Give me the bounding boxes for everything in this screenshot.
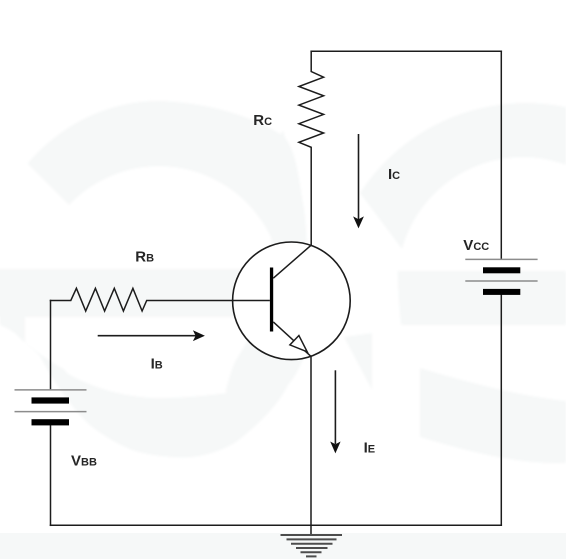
transistor Q1 [233, 242, 351, 360]
arrow IE [330, 370, 340, 453]
arrow IC [353, 134, 364, 228]
background watermark right glyph [344, 103, 566, 463]
svg-text:RC: RC [253, 112, 272, 129]
emitter line [273, 322, 311, 357]
battery VBB [15, 390, 87, 426]
wire top [311, 50, 501, 52]
svg-text:VCC: VCC [463, 237, 489, 254]
resistor RC [299, 51, 324, 245]
wire bottom [51, 524, 502, 526]
battery VCC [465, 259, 537, 295]
wire emitter [310, 356, 312, 534]
bottom strip [0, 533, 566, 559]
wire left upper [50, 301, 52, 390]
base bar [270, 268, 273, 332]
arrow IB [98, 330, 205, 341]
base wire inside [233, 300, 270, 302]
wire left lower [50, 426, 52, 526]
svg-text:IE: IE [364, 440, 376, 457]
background watermark left glyph [0, 101, 308, 458]
svg-text:VBB: VBB [71, 452, 97, 469]
wire right lower [500, 295, 502, 525]
emitter arrowhead [290, 336, 307, 352]
ground [281, 535, 343, 556]
collector line [273, 245, 311, 278]
resistor RB [51, 288, 233, 311]
wire right upper [500, 51, 502, 259]
